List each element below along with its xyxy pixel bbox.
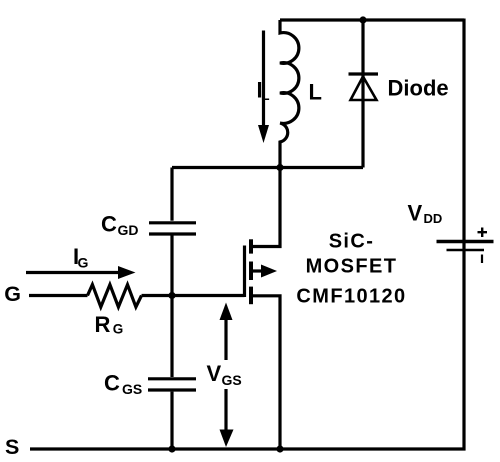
label VGS: [207, 361, 242, 388]
svg-text:G: G: [113, 322, 124, 337]
voltage arrow VGS (double headed): [220, 303, 234, 448]
inductor L (coil): [280, 20, 299, 168]
wire gate branch middle: [170, 236, 173, 378]
gate bar: [243, 246, 246, 298]
label RG: [95, 312, 124, 337]
wire gate branch lower: [170, 392, 173, 449]
wire top rail (inductor top to VDD+): [280, 18, 464, 21]
body arrow: [253, 269, 263, 272]
wire mid horizontal (gate branch to diode branch): [172, 166, 363, 169]
label VDD: [408, 201, 443, 227]
junction dot (top rail / diode branch): [359, 16, 366, 23]
svg-text:L: L: [261, 87, 270, 103]
wire diode branch vertical: [361, 20, 364, 168]
capacitor CGD: [149, 223, 196, 234]
svg-text:GD: GD: [118, 222, 139, 238]
battery minus mark: [481, 255, 483, 264]
current arrow IG: [26, 266, 136, 279]
junction dot (gate branch / S rail): [168, 445, 175, 452]
junction dot (source / S rail): [276, 445, 283, 452]
channel segment body: [249, 262, 253, 281]
svg-text:GS: GS: [222, 372, 242, 388]
capacitor CGS: [148, 379, 196, 390]
svg-text:C: C: [101, 212, 117, 237]
transistor Q1 SiC MOSFET: [245, 168, 281, 450]
channel segment source: [249, 287, 253, 305]
wire bottom source rail S: [30, 447, 466, 450]
diode D (freewheeling): [349, 74, 379, 100]
svg-text:R: R: [95, 312, 111, 337]
channel segment drain: [249, 239, 253, 253]
svg-text:Diode: Diode: [388, 76, 449, 101]
label CGD: [101, 212, 139, 239]
label IL: [257, 78, 271, 104]
current arrow IL: [258, 31, 269, 144]
svg-text:G: G: [78, 255, 89, 271]
battery plus sign: [478, 228, 488, 238]
label CGS: [104, 370, 142, 397]
battery VDD: [437, 242, 494, 251]
wire drain connection: [252, 168, 280, 247]
wire gate lead-in: [29, 294, 88, 297]
svg-text:DD: DD: [424, 211, 443, 226]
wire gate branch upper: [170, 168, 173, 221]
svg-text:S: S: [5, 435, 19, 459]
wire gate node to MOSFET gate: [142, 294, 245, 297]
svg-text:GS: GS: [122, 381, 142, 397]
resistor RG: [88, 285, 142, 307]
wire right vertical VDD branch: [462, 19, 465, 451]
svg-text:SiC-: SiC-: [329, 231, 375, 253]
svg-text:V: V: [207, 361, 222, 386]
svg-text:C: C: [104, 370, 120, 395]
label IG: [73, 244, 89, 271]
svg-text:L: L: [309, 80, 322, 105]
svg-text:MOSFET: MOSFET: [306, 256, 398, 278]
junction dot (inductor / drain node): [276, 164, 283, 171]
junction dot gate node: [168, 292, 175, 299]
svg-text:V: V: [408, 201, 423, 226]
svg-text:CMF10120: CMF10120: [296, 285, 406, 307]
wire source connection: [252, 296, 280, 449]
svg-text:G: G: [4, 282, 21, 306]
label SiC-MOSFET CMF10120: [296, 231, 406, 308]
